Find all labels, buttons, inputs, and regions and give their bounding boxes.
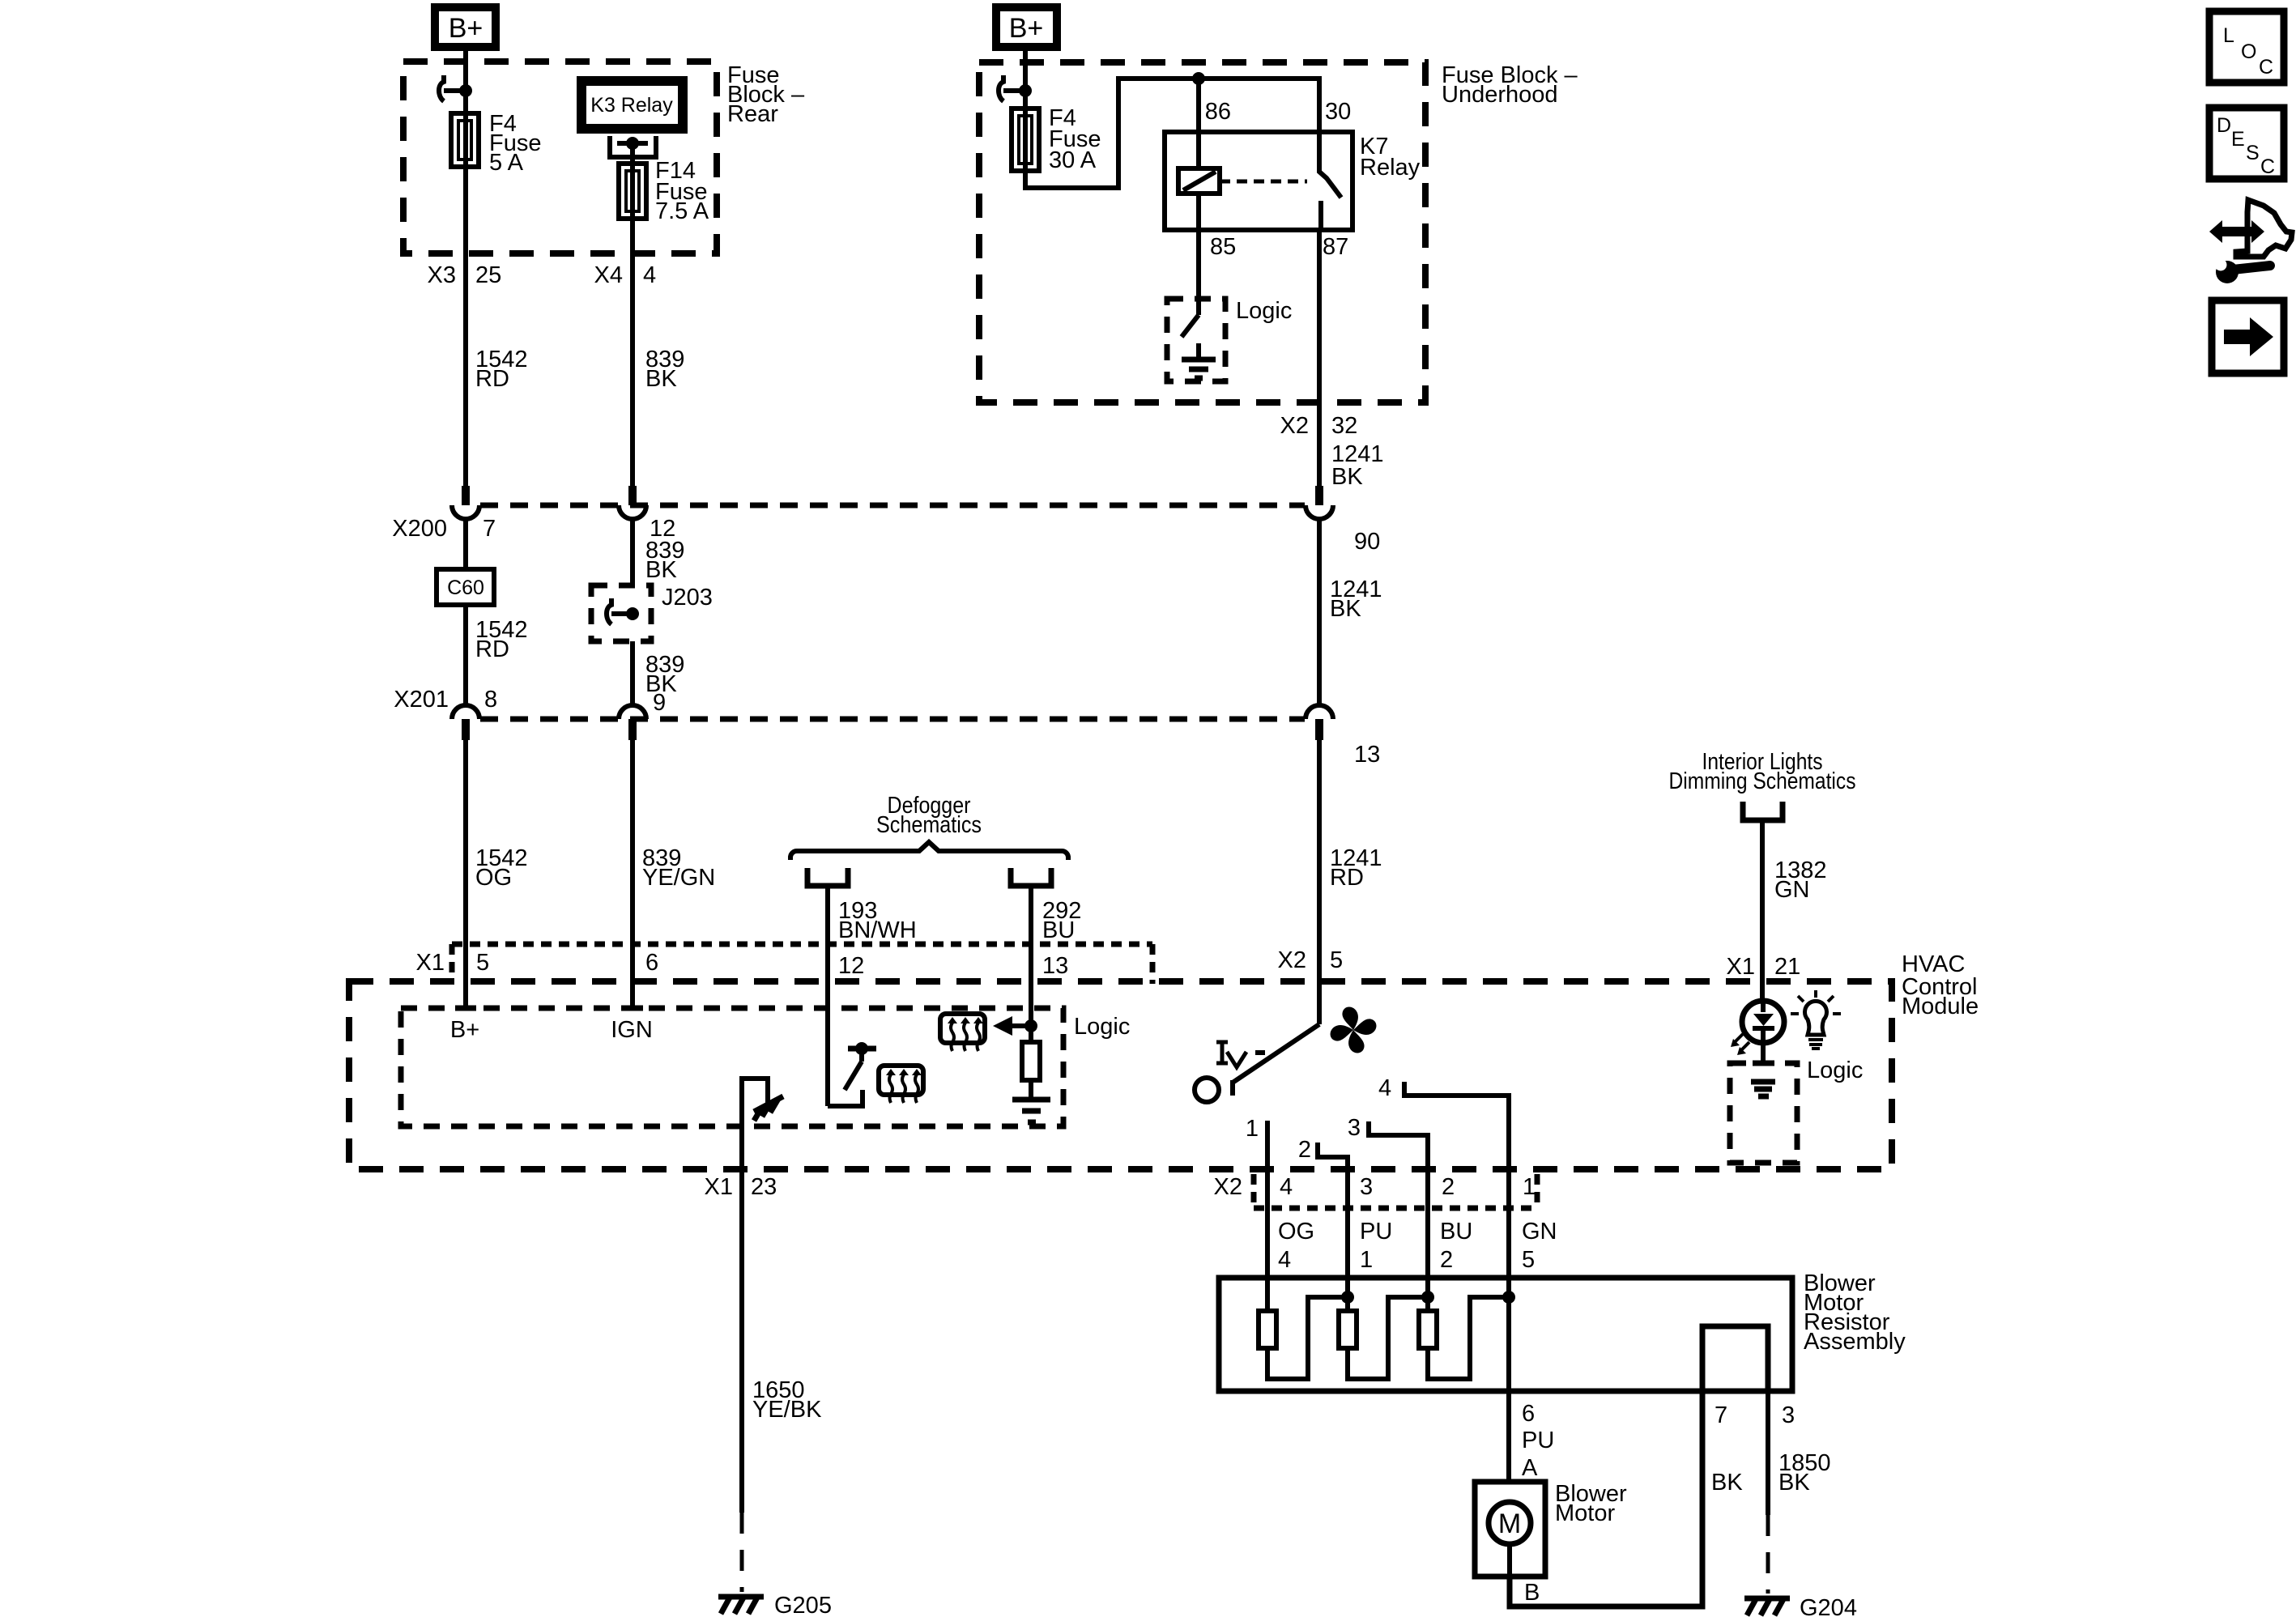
wire F4 30A to relay 30 [1025,79,1319,188]
defogger schematics label [876,793,982,838]
defog indicator icon upper [940,1014,985,1051]
wire K3 to F14 [630,143,635,164]
wire C60 to X201 [463,605,468,705]
HVAC control module dashed box [349,981,1892,1169]
svg-text:Underhood: Underhood [1442,82,1558,108]
svg-text:GN: GN [1522,1219,1557,1245]
fuse F4 30A [1012,105,1101,173]
svg-text:4: 4 [643,262,656,288]
fan switch detent marks [1216,1042,1265,1067]
connector X200 pin 12 (cup) [619,486,646,585]
fuse block underhood label [1442,62,1578,108]
node junction to coil 86 [1192,72,1205,85]
pin IGN tick [622,1006,643,1011]
resistor R1 [1259,1278,1348,1379]
wire 86 to coil [1196,79,1201,168]
connector X4 pin 4 [594,262,657,288]
wire label 1241 BK (below 90) [1330,577,1382,622]
svg-text:BK: BK [645,557,677,583]
connector row X200 dashed line [480,503,1305,509]
fuse block underhood dashed box [979,62,1425,402]
relay actuator dashed link [1220,180,1307,184]
wire label BU 2 [1440,1219,1472,1273]
fuse F14 7.5A [619,158,709,224]
svg-text:X200: X200 [392,516,447,542]
svg-text:C: C [2260,155,2275,178]
wire label 1850 BK [1778,1450,1831,1496]
svg-text:E: E [2231,128,2245,151]
wire label 839 BK (pin12) [645,538,684,583]
ground G204 [1744,1595,1857,1617]
resistor R2 [1339,1278,1428,1379]
svg-text:21: 21 [1774,954,1800,980]
wire label 1241 RD [1330,845,1382,891]
svg-text:X2: X2 [1278,947,1306,973]
defogger wire 292 bracket [1011,868,1051,886]
svg-text:B+: B+ [450,1017,479,1043]
wire 193 BN/WH [825,888,830,1012]
svg-text:1: 1 [1246,1116,1259,1142]
interior lights bracket [1743,802,1783,820]
svg-text:X201: X201 [394,687,449,713]
svg-text:YE/GN: YE/GN [642,865,715,891]
svg-text:BN/WH: BN/WH [838,917,917,943]
connector X1 pin 21 [1727,954,1801,980]
blower wire 3 [1348,1115,1428,1278]
svg-text:Motor: Motor [1555,1500,1615,1526]
svg-text:12: 12 [838,953,864,979]
resistor R3 [1419,1278,1509,1379]
wire J203 to X201 [630,641,635,705]
svg-text:M: M [1498,1508,1521,1539]
battery feed B+ (rear) [435,7,496,47]
svg-text:Assembly: Assembly [1804,1329,1906,1355]
connector pin 13 (cup) [1306,705,1333,1024]
fuse F4 5A (rear) [451,111,541,176]
svg-text:BK: BK [1330,596,1361,622]
svg-text:X2: X2 [1214,1174,1242,1200]
pin B+ tick [455,1006,476,1011]
wire label 1542 OG [475,845,528,891]
svg-text:1: 1 [1360,1247,1373,1273]
bus clip at F4 [439,75,472,101]
svg-text:BK: BK [1711,1470,1743,1496]
K3 relay output cup [610,136,656,157]
svg-text:X3: X3 [428,262,456,288]
svg-text:4: 4 [1278,1247,1291,1273]
connector X200 pin 7 (cup) [452,486,479,569]
svg-text:5 A: 5 A [489,150,524,176]
wire 1382 GN [1760,823,1765,1001]
HVAC internal chassis ground [754,1096,783,1121]
svg-text:B+: B+ [1009,13,1044,44]
svg-text:O: O [2241,40,2256,63]
wire coil to logic (85) [1196,194,1201,315]
svg-text:B: B [1524,1580,1540,1606]
wire motor B to resistor pin 7 [1510,1391,1702,1606]
HVAC internal ground wire [742,1079,768,1169]
sidebar wrench icon [2215,259,2271,284]
wire GN through box to motor [1506,1278,1511,1482]
svg-text:C60: C60 [447,577,484,599]
svg-text:Rear: Rear [727,101,778,127]
wire label 1542 RD (below C60) [475,617,528,662]
ground G205 [718,1593,832,1617]
connector X201 pin 8 (cup) [452,705,479,1008]
defog indicator icon lower [879,1066,923,1103]
svg-text:BK: BK [645,366,677,392]
svg-text:X1: X1 [705,1174,733,1200]
svg-text:Logic: Logic [1074,1014,1130,1040]
splice J203 [591,585,713,641]
svg-text:S: S [2246,142,2260,164]
svg-text:BU: BU [1440,1219,1472,1245]
connector X201 pin 9 (cup) [619,705,646,1008]
defogger wire 193 bracket [807,868,848,886]
svg-text:RD: RD [475,366,509,392]
relay switch blade 30-87 [1319,130,1341,230]
svg-text:90: 90 [1354,529,1380,555]
svg-text:6: 6 [1522,1401,1535,1427]
svg-text:86: 86 [1205,99,1231,125]
inline connector C60 [437,569,494,605]
svg-text:PU: PU [1522,1428,1554,1453]
svg-text:2: 2 [1298,1137,1311,1163]
svg-text:87: 87 [1323,234,1348,260]
interior lights dimming label [1669,749,1856,794]
bus clip at F4 30A [999,75,1032,101]
svg-text:5: 5 [1330,947,1343,973]
defog logic earth ground [1012,1100,1050,1122]
svg-text:PU: PU [1360,1219,1392,1245]
blower motor resistor assembly box [1219,1278,1792,1391]
svg-text:Module: Module [1902,994,1979,1019]
fan feed wire 4 [1378,1075,1509,1278]
wire 1850 BK to G204 [1766,1391,1770,1594]
resistor connector notch [1702,1326,1768,1391]
svg-text:5: 5 [476,950,489,976]
logic resistor [1022,1042,1040,1080]
blower wire 1 [1246,1116,1267,1278]
svg-text:D: D [2217,114,2231,137]
svg-text:3: 3 [1782,1402,1795,1428]
svg-text:7.5 A: 7.5 A [655,198,709,224]
HVAC logic dashed box (defogger) [401,1008,1063,1126]
fan switch blade [1233,1024,1319,1096]
svg-text:30 A: 30 A [1049,147,1097,173]
wire B+ to F4 30A [1023,51,1028,109]
svg-text:1: 1 [1523,1174,1536,1200]
fan motor pinwheel [1327,1003,1380,1057]
svg-text:23: 23 [751,1174,777,1200]
LED dimming diode [1742,1001,1784,1063]
svg-text:X1: X1 [1727,954,1755,980]
logic switch blade [1182,315,1199,337]
fan switch contact [1195,1078,1219,1102]
connector X2 pin 32 [1280,413,1358,439]
svg-text:X1: X1 [416,950,445,976]
svg-text:B+: B+ [449,13,483,44]
svg-text:X2: X2 [1280,413,1309,439]
wire label 839 BK (below J203) [645,652,684,697]
svg-text:BK: BK [1331,464,1363,490]
relay coil [1178,168,1220,194]
node on wire GN [1502,1291,1515,1304]
fuse block rear label [727,62,805,127]
connector row X1 dotted [452,944,1152,984]
svg-text:6: 6 [645,950,658,976]
svg-text:13: 13 [1042,953,1068,979]
svg-text:4: 4 [1280,1174,1293,1200]
wire label 839 BK [645,347,684,392]
svg-text:L: L [2223,24,2234,47]
svg-text:4: 4 [1378,1075,1391,1101]
svg-text:Dimming Schematics: Dimming Schematics [1669,768,1856,794]
svg-text:2: 2 [1440,1247,1453,1273]
svg-text:J203: J203 [662,585,713,611]
K7 relay label [1360,134,1421,181]
sidebar connector-repair icon [2209,200,2292,257]
svg-text:3: 3 [1360,1174,1373,1200]
svg-text:2: 2 [1442,1174,1455,1200]
svg-text:Schematics: Schematics [876,812,982,838]
svg-text:RD: RD [475,636,509,662]
svg-text:Logic: Logic [1807,1057,1863,1083]
connector pin 90 (cup) [1306,486,1333,705]
LED logic earth ground [1751,1082,1775,1096]
connector X1 pin 23 [705,1174,777,1200]
wire 6 PU A labels [1522,1401,1554,1481]
defogger brace [790,842,1068,860]
svg-text:G204: G204 [1800,1595,1857,1617]
svg-text:13: 13 [1354,742,1380,768]
blower wire 2 [1298,1137,1348,1278]
K7 logic dashed box [1167,299,1225,381]
defog logic switch [828,1012,876,1106]
fuse block rear dashed box [403,62,717,253]
wire label OG 4 [1278,1219,1314,1273]
connector X3 pin 25 [428,262,502,288]
wire F4 to X3-25 [463,167,468,486]
fan switch wire from pin X2-5 [1278,947,1344,973]
wire F14 to X4-4 [630,219,635,486]
wire label PU 1 [1360,1219,1392,1273]
svg-text:X4: X4 [594,262,623,288]
svg-text:C: C [2259,56,2273,79]
sidebar DESC icon [2209,108,2284,179]
logic earth ground [1182,343,1216,378]
svg-text:7: 7 [1715,1402,1727,1428]
wire label 1241 BK [1331,441,1384,490]
wire label GN 5 [1522,1219,1557,1273]
battery feed B+ (underhood) [996,7,1057,47]
svg-text:YE/BK: YE/BK [752,1397,822,1423]
svg-text:32: 32 [1331,413,1357,439]
wire 87 down to X2-32 [1317,230,1322,491]
wire resistor to ground [1029,1080,1033,1100]
svg-text:9: 9 [653,690,666,716]
sidebar LOC icon [2209,11,2284,83]
LED logic dashed box [1730,1063,1797,1163]
sidebar next-page arrow icon [2212,300,2284,373]
blower motor label [1555,1481,1627,1526]
svg-text:Logic: Logic [1236,298,1292,324]
svg-text:RD: RD [1330,865,1364,891]
svg-text:A: A [1522,1455,1538,1481]
node on wire 2 [1341,1291,1354,1304]
node on wire 3 [1421,1291,1434,1304]
svg-text:K3 Relay: K3 Relay [590,94,673,117]
wire B+ to F4 fuse [463,51,468,113]
svg-text:25: 25 [475,262,501,288]
svg-text:3: 3 [1348,1115,1361,1141]
svg-text:IGN: IGN [611,1017,653,1043]
wire label 839 YE/GN [642,845,715,891]
svg-text:OG: OG [1278,1219,1314,1245]
logic arrow to wire 292 [993,1016,1037,1036]
svg-text:Relay: Relay [1360,155,1421,181]
svg-text:BU: BU [1042,917,1075,943]
svg-text:5: 5 [1522,1247,1535,1273]
svg-text:85: 85 [1210,234,1236,260]
wire X1-23 to G205 [739,1169,744,1592]
svg-text:BK: BK [1778,1470,1810,1496]
bulb icon [1791,990,1841,1049]
svg-text:30: 30 [1325,99,1351,125]
wire 292 BU [1029,888,1033,1042]
HVAC module label [1902,951,1979,1019]
svg-text:8: 8 [484,687,497,713]
LED logic tick [1753,1061,1774,1066]
wire label 1542 RD [475,347,528,392]
motor M circle [1489,1502,1531,1544]
svg-text:GN: GN [1774,877,1810,903]
connector X2 dotted row (blower) [1254,1174,1537,1208]
K3 relay block [581,81,683,129]
resistor assembly label [1804,1270,1906,1355]
svg-text:G205: G205 [774,1593,832,1617]
wire label 1650 YE/BK [752,1377,822,1423]
connector row X201 dashed line [480,717,1305,722]
svg-text:7: 7 [483,516,496,542]
LED emission arrows [1731,1034,1749,1055]
relay K7 box [1165,132,1352,230]
blower motor box [1475,1482,1545,1577]
svg-text:OG: OG [475,865,512,891]
